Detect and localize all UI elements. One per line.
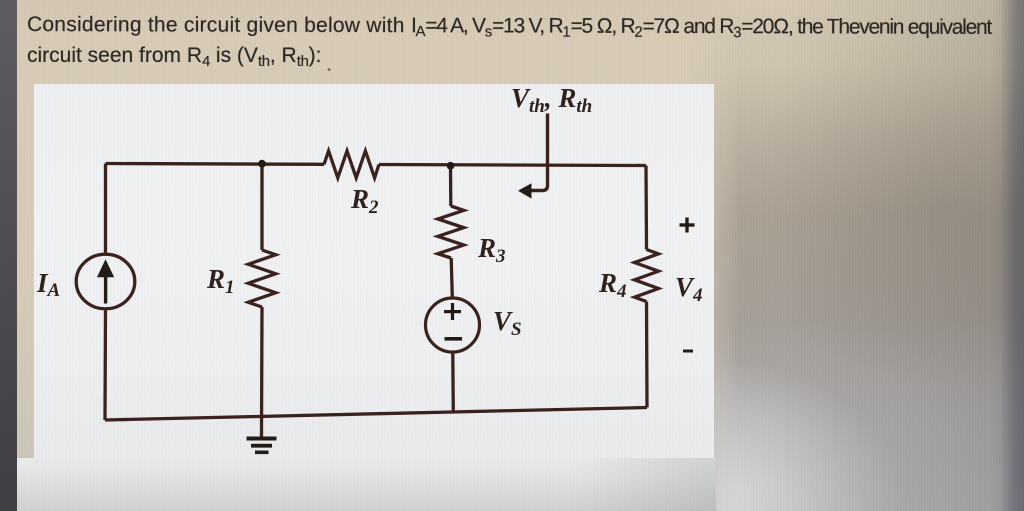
- Vs minus sign: [445, 337, 463, 341]
- V4 plus sign: [680, 223, 695, 226]
- question text line 2: [27, 44, 321, 68]
- Vth arrowhead: [518, 183, 532, 198]
- Vs plus sign: [444, 310, 461, 313]
- resistor R2: [324, 151, 379, 178]
- Vth/Rth probe arrow: [530, 114, 548, 191]
- wire R1 branch: [260, 164, 264, 437]
- node dot junction 1: [258, 160, 266, 168]
- current source IA circle: [76, 254, 135, 309]
- resistor R3: [438, 206, 464, 258]
- V4 minus sign: [683, 350, 693, 353]
- wire top: [106, 164, 647, 166]
- faint period speck after line2: [328, 68, 331, 71]
- svg-text:Vth, Rth: Vth, Rth: [511, 83, 592, 117]
- ground: [247, 437, 277, 441]
- voltage source Vs circle: [426, 298, 480, 352]
- resistor R4: [635, 250, 659, 302]
- wire left vertical: [103, 164, 107, 421]
- svg-text:IA: IA: [36, 268, 60, 301]
- svg-text:R2: R2: [350, 184, 379, 218]
- svg-text:V4: V4: [675, 272, 703, 306]
- wire bottom: [105, 408, 647, 421]
- svg-text:R1: R1: [206, 264, 235, 298]
- IA arrow: [104, 270, 107, 304]
- resistor R1: [248, 250, 275, 307]
- wire right vertical: [646, 166, 647, 408]
- svg-text:R3: R3: [477, 233, 506, 267]
- question text line 1: [27, 13, 991, 40]
- svg-text:R4: R4: [598, 268, 627, 302]
- wire R3/Vs branch: [451, 166, 454, 413]
- svg-text:VS: VS: [493, 306, 522, 340]
- node dot junction 2: [447, 162, 455, 170]
